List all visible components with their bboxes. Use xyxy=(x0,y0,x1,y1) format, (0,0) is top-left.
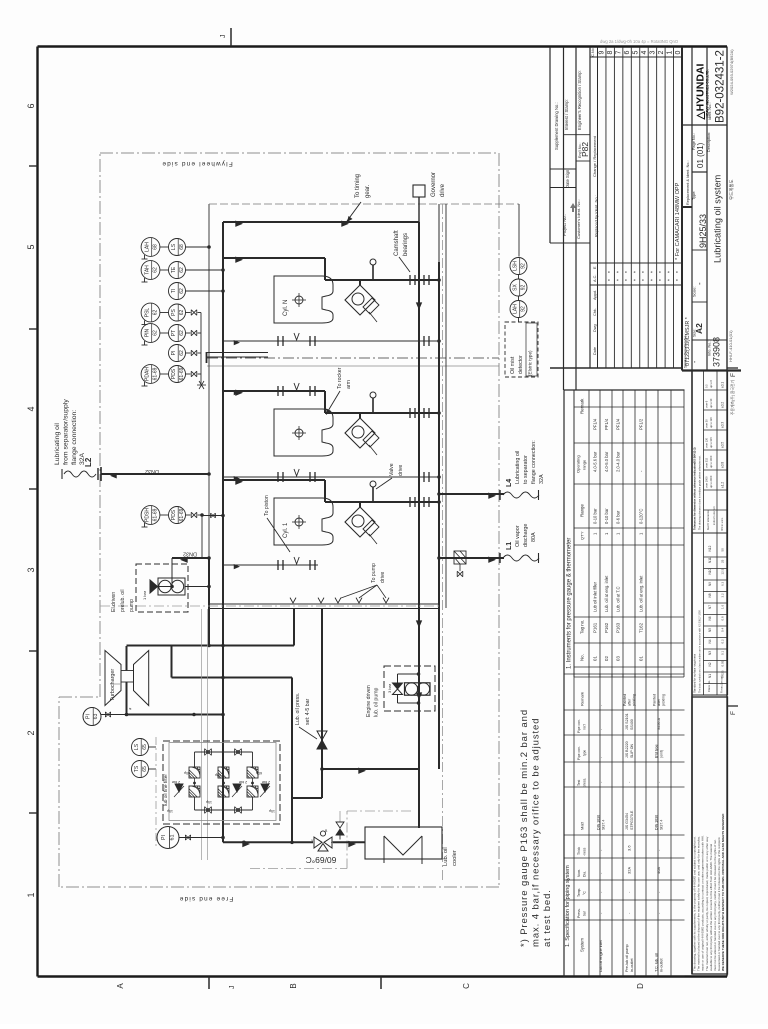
svg-text:15μ: 15μ xyxy=(269,809,275,813)
svg-text:02: 02 xyxy=(604,656,609,661)
svg-text:SX: SX xyxy=(512,284,518,291)
svg-text:N2: N2 xyxy=(708,662,712,666)
svg-text:PIN: PIN xyxy=(144,328,150,337)
svg-text:61-69: 61-69 xyxy=(179,367,185,380)
svg-text:The basic symbols and class nu: The basic symbols and class numbers are … xyxy=(699,609,702,693)
svg-text:5: 5 xyxy=(26,244,36,249)
svg-text:over 1000: over 1000 xyxy=(705,476,709,488)
svg-text:0-120°C: 0-120°C xyxy=(639,509,644,524)
svg-text:4.0-5.0 bar: 4.0-5.0 bar xyxy=(604,451,609,472)
svg-text:Engine driven: Engine driven xyxy=(366,685,372,717)
svg-text:32A: 32A xyxy=(539,474,545,484)
svg-text:PS: PS xyxy=(171,309,177,316)
svg-text:D: D xyxy=(636,983,645,989)
svg-text:L1: L1 xyxy=(506,542,513,550)
svg-text:No.: No. xyxy=(580,654,585,661)
svg-text:주용계측(주) 환국전기: 주용계측(주) 환국전기 xyxy=(730,380,735,415)
svg-text:HHI-F-410-01(01): HHI-F-410-01(01) xyxy=(728,330,733,362)
svg-text:Lubricating oil: Lubricating oil xyxy=(54,423,61,465)
svg-text:62: 62 xyxy=(179,267,185,273)
svg-text:03: 03 xyxy=(616,656,621,661)
svg-text:from separator/supply: from separator/supply xyxy=(63,399,70,465)
svg-text:drive: drive xyxy=(380,572,386,583)
svg-text:up to 315: up to 315 xyxy=(709,437,713,448)
svg-text:range: range xyxy=(582,459,587,470)
svg-text:Similar Drawing No.:: Similar Drawing No.: xyxy=(684,333,688,368)
svg-text:0.05: 0.05 xyxy=(721,660,725,666)
svg-text:B92-032431-2: B92-032431-2 xyxy=(715,50,727,123)
svg-text:60/69°C: 60/69°C xyxy=(306,855,337,865)
svg-text:at test bed.: at test bed. xyxy=(542,889,553,947)
svg-text:0.8: 0.8 xyxy=(721,616,725,621)
svg-text:over 120: over 120 xyxy=(705,437,709,448)
svg-text:in-outlet: in-outlet xyxy=(659,958,663,972)
svg-text:01 (01): 01 (01) xyxy=(696,142,705,168)
svg-text:Press.: Press. xyxy=(577,908,581,918)
svg-text:B'ld type: B'ld type xyxy=(655,744,659,758)
svg-text:A.C.: A.C. xyxy=(593,275,597,282)
svg-text:°C: °C xyxy=(583,891,587,895)
svg-text:indicat'n deviat'n: indicat'n deviat'n xyxy=(712,505,716,525)
svg-text:press.: press. xyxy=(583,778,587,787)
svg-text:±0.8: ±0.8 xyxy=(721,462,725,468)
svg-text:up to 30: up to 30 xyxy=(709,398,713,408)
svg-text:drive: drive xyxy=(398,465,404,476)
svg-text:2 bar: 2 bar xyxy=(261,780,270,784)
svg-text:±0.2: ±0.2 xyxy=(721,402,725,408)
svg-text:SS400: SS400 xyxy=(630,719,634,730)
svg-text:Appd.: Appd. xyxy=(593,290,597,300)
svg-text:N4: N4 xyxy=(708,639,712,643)
svg-text:Tolerances for dimension witho: Tolerances for dimension without toleran… xyxy=(693,447,697,530)
svg-text:N6: N6 xyxy=(708,616,712,620)
svg-text:arm: arm xyxy=(346,380,352,389)
svg-text:after: after xyxy=(628,698,632,706)
svg-text:15μ: 15μ xyxy=(167,809,173,813)
svg-text:up to 2000: up to 2000 xyxy=(709,475,713,488)
svg-text:01: 01 xyxy=(593,656,598,661)
svg-text:0.5: 0.5 xyxy=(705,384,709,388)
svg-text:2: 2 xyxy=(26,730,36,735)
svg-text:PSL: PSL xyxy=(144,308,150,318)
svg-text:N11: N11 xyxy=(708,557,712,563)
svg-text:2 bar: 2 bar xyxy=(171,780,180,784)
svg-text:0.025: 0.025 xyxy=(721,670,725,678)
svg-text:DN32: DN32 xyxy=(183,551,197,557)
svg-text:T.C. lub. oil: T.C. lub. oil xyxy=(655,953,659,972)
svg-text:PF1/4: PF1/4 xyxy=(593,418,598,430)
svg-text:Oil vapor: Oil vapor xyxy=(515,525,521,547)
svg-text:drive: drive xyxy=(440,183,446,197)
svg-text:over 315: over 315 xyxy=(705,457,709,468)
svg-text:Camshaft: Camshaft xyxy=(394,230,400,256)
svg-text:DIN 1630: DIN 1630 xyxy=(655,815,659,830)
svg-text:3.6: 3.6 xyxy=(627,845,632,851)
svg-text:T162: T162 xyxy=(639,622,644,633)
svg-text:lub. oil pump: lub. oil pump xyxy=(374,687,380,717)
svg-text:SLIP ON: SLIP ON xyxy=(630,743,634,758)
svg-text:Class No.: Class No. xyxy=(707,680,711,692)
svg-text:Date: Date xyxy=(593,347,597,355)
svg-text:To piston: To piston xyxy=(264,495,270,516)
svg-text:01: 01 xyxy=(639,656,644,661)
svg-text:Temp.: Temp. xyxy=(577,888,581,897)
svg-text:A: A xyxy=(116,983,125,989)
svg-text:(oint): (oint) xyxy=(659,750,663,758)
svg-text:lub oil fine filter: lub oil fine filter xyxy=(163,774,169,806)
svg-text:Interest / Stamp:: Interest / Stamp: xyxy=(564,99,569,130)
svg-text:TAH: TAH xyxy=(144,265,150,275)
svg-text:Dwg: Dwg xyxy=(593,324,597,332)
svg-text:N5: N5 xyxy=(708,628,712,632)
svg-text:F: F xyxy=(730,711,737,715)
svg-text:±0.3: ±0.3 xyxy=(721,422,725,428)
svg-text:Ident. No.:: Ident. No.: xyxy=(708,102,712,120)
svg-text:N3: N3 xyxy=(708,651,712,655)
svg-text:3: 3 xyxy=(649,50,656,54)
svg-text:68: 68 xyxy=(153,244,159,250)
svg-text:N7: N7 xyxy=(708,605,712,609)
svg-text:65: 65 xyxy=(142,744,148,750)
svg-text:pickling: pickling xyxy=(662,694,666,706)
svg-text:4: 4 xyxy=(641,50,648,54)
svg-text:detector: detector xyxy=(518,355,524,374)
svg-text:Change / Replacement: Change / Replacement xyxy=(592,135,597,177)
svg-text:Lubricating oil: Lubricating oil xyxy=(515,451,521,484)
svg-text:B: B xyxy=(289,983,298,988)
svg-text:1.6: 1.6 xyxy=(721,604,725,609)
svg-text:Oil mist: Oil mist xyxy=(510,356,516,374)
svg-text:TE: TE xyxy=(171,266,177,273)
svg-text:bearings: bearings xyxy=(403,233,409,256)
svg-text:Date Sign:: Date Sign: xyxy=(565,168,570,188)
svg-text:MM in units: MM in units xyxy=(720,517,724,531)
svg-text:Replacement & Ident. No.:: Replacement & Ident. No.: xyxy=(686,160,690,205)
svg-text:W2024-093-02974(B92A): W2024-093-02974(B92A) xyxy=(729,49,734,95)
svg-text:(Elstric type): (Elstric type) xyxy=(528,350,533,376)
svg-text:Q'TY: Q'TY xyxy=(581,531,585,540)
svg-text:2.0-4.0 bar: 2.0-4.0 bar xyxy=(616,451,621,472)
svg-text:80A: 80A xyxy=(531,532,537,542)
svg-text:C: C xyxy=(462,983,471,989)
svg-text:Lub. oil press.: Lub. oil press. xyxy=(295,693,301,725)
svg-text:60μ: 60μ xyxy=(215,773,221,777)
svg-text:TI: TI xyxy=(171,289,177,293)
svg-text:61: 61 xyxy=(170,835,176,841)
svg-text:S450-A: S450-A xyxy=(657,717,661,730)
svg-text:-ness: -ness xyxy=(583,847,587,856)
svg-text:0: 0 xyxy=(675,50,682,54)
svg-text:A2: A2 xyxy=(694,323,704,334)
svg-text:1: 1 xyxy=(26,892,36,897)
svg-text:PF1/2: PF1/2 xyxy=(639,418,644,430)
svg-text:15μ: 15μ xyxy=(206,800,212,804)
svg-text:max. 4 bar,if necessary orific: max. 4 bar,if necessary orifice to be ad… xyxy=(531,718,542,947)
svg-text:gear.: gear. xyxy=(365,184,371,198)
svg-text:Test: Test xyxy=(577,780,581,786)
svg-text:* For CAMACARI 148MW OPP: * For CAMACARI 148MW OPP xyxy=(675,182,681,260)
svg-text:68: 68 xyxy=(179,244,185,250)
svg-text:1 bar: 1 bar xyxy=(142,590,147,600)
svg-text:2: 2 xyxy=(658,50,665,54)
svg-text:El.driven: El.driven xyxy=(111,592,117,612)
svg-text:Valve: Valve xyxy=(389,463,395,476)
svg-text:Supplement Drawing No.:: Supplement Drawing No.: xyxy=(554,102,559,150)
svg-text:62: 62 xyxy=(179,310,185,316)
svg-text:flange connection:: flange connection: xyxy=(531,440,537,484)
svg-text:DN32: DN32 xyxy=(145,468,159,474)
svg-text:우드계통도: 우드계통도 xyxy=(728,179,735,200)
svg-text:To pump: To pump xyxy=(371,563,377,583)
svg-text:PDS: PDS xyxy=(171,368,177,379)
svg-text:Lub. oil: Lub. oil xyxy=(443,847,449,866)
svg-text:Lub. oil at eng. inlet: Lub. oil at eng. inlet xyxy=(639,575,644,612)
svg-text:Pipe con.: Pipe con. xyxy=(577,746,581,760)
svg-text:Replaced by Ident. No.:: Replaced by Ident. No.: xyxy=(594,195,599,237)
svg-text:St37.4: St37.4 xyxy=(659,820,663,830)
svg-text:7: 7 xyxy=(616,50,623,54)
svg-text:LS: LS xyxy=(171,243,177,250)
svg-text:JIS B2220: JIS B2220 xyxy=(625,741,629,758)
svg-text:50: 50 xyxy=(721,548,725,552)
svg-text:C.No: C.No xyxy=(591,48,595,56)
svg-text:over 6: over 6 xyxy=(705,400,709,408)
svg-text:J: J xyxy=(229,986,236,990)
svg-text:P163: P163 xyxy=(616,622,621,633)
svg-text:61-69: 61-69 xyxy=(179,508,185,521)
svg-text:92: 92 xyxy=(521,285,527,291)
svg-text:6: 6 xyxy=(26,103,36,108)
svg-text:3: 3 xyxy=(26,567,36,572)
svg-text:1: 1 xyxy=(666,50,673,54)
svg-text:40A: 40A xyxy=(656,867,661,874)
svg-text:Engineer's Recognition / Stamp: Engineer's Recognition / Stamp: xyxy=(577,70,582,130)
svg-text:JIS S2101: JIS S2101 xyxy=(625,713,629,730)
svg-text:Description:: Description: xyxy=(707,132,711,152)
svg-text:L2: L2 xyxy=(84,457,93,467)
svg-text:Painted: Painted xyxy=(623,694,627,706)
svg-text:Flywheel end side: Flywheel end side xyxy=(161,160,233,167)
svg-text:62: 62 xyxy=(179,350,185,356)
svg-text:Range: Range xyxy=(580,504,585,517)
svg-text:up to 120: up to 120 xyxy=(709,417,713,428)
svg-text:PF1/4: PF1/4 xyxy=(616,418,621,430)
svg-text:LSH: LSH xyxy=(512,261,518,271)
svg-text:61-69: 61-69 xyxy=(153,508,159,521)
svg-text:to separator: to separator xyxy=(523,455,529,484)
svg-text:L4: L4 xyxy=(506,479,513,487)
svg-text:1. Instruments for pressure ga: 1. Instruments for pressure gauge & ther… xyxy=(567,538,573,669)
svg-text:Thick: Thick xyxy=(577,847,581,855)
svg-text:62: 62 xyxy=(153,310,159,316)
svg-text:4: 4 xyxy=(26,406,36,411)
svg-text:Remark: Remark xyxy=(580,692,585,706)
svg-text:over 30: over 30 xyxy=(705,419,709,428)
svg-text:0.4: 0.4 xyxy=(721,627,725,632)
svg-text:dwg 2a 1/dwg-0h 10a 4p = Rotat: dwg 2a 1/dwg-0h 10a 4p = RotatING QnO xyxy=(600,39,679,44)
svg-text:±0.5: ±0.5 xyxy=(721,442,725,448)
svg-text:63: 63 xyxy=(93,714,99,720)
svg-text:flange connection:: flange connection: xyxy=(71,410,78,465)
svg-text:To timing: To timing xyxy=(355,174,361,198)
svg-text:Lub. oil at T.C: Lub. oil at T.C xyxy=(616,586,621,612)
svg-text:The drawing tolerance class is: The drawing tolerance class is medium gr… xyxy=(699,455,702,530)
svg-text:Pipe con.: Pipe con. xyxy=(577,719,581,733)
svg-text:0-6 bar: 0-6 bar xyxy=(616,510,621,524)
svg-text:N12: N12 xyxy=(708,545,712,551)
svg-text:32A: 32A xyxy=(627,867,632,874)
svg-text:0.1: 0.1 xyxy=(721,650,725,655)
svg-text:Lub. oil at eng. inlet: Lub. oil at eng. inlet xyxy=(604,575,609,612)
svg-text:N10: N10 xyxy=(708,568,712,574)
svg-text:3 bar: 3 bar xyxy=(387,683,392,693)
svg-text:LAH: LAH xyxy=(512,304,518,314)
svg-text:prelub. oil: prelub. oil xyxy=(120,590,126,613)
svg-text:To rocker: To rocker xyxy=(337,367,343,389)
svg-text:8: 8 xyxy=(607,50,614,54)
svg-text:60μ: 60μ xyxy=(256,771,262,775)
svg-text:1. Specification for piping sy: 1. Specification for piping system xyxy=(565,865,571,947)
svg-text:-: - xyxy=(695,282,704,285)
svg-text:F: F xyxy=(730,373,737,377)
svg-text:P161: P161 xyxy=(593,622,598,633)
svg-text:0-10 bar: 0-10 bar xyxy=(604,508,609,524)
svg-text:*) Pressure gauge P163 shall b: *) Pressure gauge P163 shall be min.2 ba… xyxy=(519,709,530,947)
svg-text:Operating: Operating xyxy=(576,455,581,473)
svg-text:cooler: cooler xyxy=(452,850,458,866)
svg-text:Standard for surface roughness: Standard for surface roughness xyxy=(693,653,697,693)
svg-text:JIS G3454: JIS G3454 xyxy=(625,813,629,830)
svg-text:no:'l: no:'l xyxy=(583,724,587,730)
svg-text:type: type xyxy=(583,750,587,756)
svg-text:5: 5 xyxy=(633,50,640,54)
svg-text:Lub oil inlet filler: Lub oil inlet filler xyxy=(593,581,598,612)
svg-text:Type:: Type: xyxy=(692,191,696,200)
svg-text:Mat'l: Mat'l xyxy=(580,822,585,830)
svg-text:3.2: 3.2 xyxy=(721,593,725,598)
svg-text:62: 62 xyxy=(153,330,159,336)
svg-text:WE RESERVE THESE OUR RIGHTS WI: WE RESERVE THESE OUR RIGHTS WITH RESPECT… xyxy=(721,813,725,971)
svg-text:Scale:: Scale: xyxy=(693,286,697,297)
svg-text:Nom.: Nom. xyxy=(577,869,581,877)
svg-text:Free end side: Free end side xyxy=(179,895,234,902)
svg-text:Gen'l tolerance: Gen'l tolerance xyxy=(706,510,710,530)
svg-text:up to 6: up to 6 xyxy=(709,380,713,388)
svg-text:±0.1: ±0.1 xyxy=(721,382,725,388)
svg-text:Painted: Painted xyxy=(652,694,656,706)
svg-text:6.3: 6.3 xyxy=(721,581,725,586)
svg-text:Dia.: Dia. xyxy=(583,871,587,877)
svg-text:Project No.:: Project No.: xyxy=(562,214,567,236)
svg-text:60μ: 60μ xyxy=(184,771,190,775)
svg-text:PDAH: PDAH xyxy=(144,367,150,381)
svg-text:STPG370-E: STPG370-E xyxy=(630,810,634,830)
svg-text:9H25/33: 9H25/33 xyxy=(698,214,708,248)
svg-text:N1: N1 xyxy=(708,674,712,678)
svg-text:pump: pump xyxy=(129,599,135,612)
svg-text:LAH: LAH xyxy=(144,242,150,252)
svg-text:25: 25 xyxy=(721,559,725,563)
svg-text:92: 92 xyxy=(521,263,527,269)
svg-text:Remark: Remark xyxy=(580,398,585,414)
svg-text:62: 62 xyxy=(179,288,185,294)
svg-text:Tag no.: Tag no. xyxy=(580,620,585,634)
svg-text:Pre-lub oil pump: Pre-lub oil pump xyxy=(625,944,629,972)
svg-text:92: 92 xyxy=(521,306,527,312)
svg-text:PT: PT xyxy=(171,330,177,336)
svg-text:System: System xyxy=(580,938,585,952)
svg-text:PI: PI xyxy=(86,714,92,719)
svg-text:Lubricating oil system: Lubricating oil system xyxy=(713,174,723,263)
svg-text:PDS: PDS xyxy=(171,509,177,520)
svg-text:0-10 bar: 0-10 bar xyxy=(593,508,598,524)
svg-text:Chk.: Chk. xyxy=(593,308,597,316)
svg-text:TS: TS xyxy=(134,765,140,772)
svg-text:up to 1000: up to 1000 xyxy=(709,455,713,468)
svg-text:pickling: pickling xyxy=(632,694,636,706)
svg-text:P162: P162 xyxy=(604,622,609,633)
svg-text:Customer's Ident. No.:: Customer's Ident. No.: xyxy=(576,199,581,239)
svg-text:12.5: 12.5 xyxy=(721,568,725,574)
svg-text:set: 4-5 bar: set: 4-5 bar xyxy=(305,698,311,725)
svg-text:4.0-5.6 bar: 4.0-5.6 bar xyxy=(593,451,598,472)
svg-text:Cyl. 1: Cyl. 1 xyxy=(283,522,289,538)
svg-text:J: J xyxy=(220,35,227,39)
svg-text:N8: N8 xyxy=(708,593,712,597)
svg-text:after: after xyxy=(657,698,661,706)
svg-text:PF1/4: PF1/4 xyxy=(604,418,609,430)
svg-text:P82: P82 xyxy=(580,142,590,157)
svg-text:Lub.oil engine inlet: Lub.oil engine inlet xyxy=(599,939,603,972)
svg-text:61-69: 61-69 xyxy=(153,367,159,380)
svg-text:2 bar: 2 bar xyxy=(238,780,247,784)
svg-text:9: 9 xyxy=(599,50,606,54)
svg-text:65: 65 xyxy=(142,766,148,772)
svg-text:62: 62 xyxy=(179,330,185,336)
svg-text:St37.4: St37.4 xyxy=(601,820,605,830)
svg-text:Governor: Governor xyxy=(431,172,437,197)
svg-text:0.2: 0.2 xyxy=(721,639,725,644)
svg-text:bar: bar xyxy=(583,910,587,916)
svg-text:PDSH: PDSH xyxy=(144,508,150,522)
svg-text:±1.2: ±1.2 xyxy=(721,482,725,488)
svg-text:Cyl. N: Cyl. N xyxy=(283,300,289,316)
svg-text:6: 6 xyxy=(624,50,631,54)
svg-text:LS: LS xyxy=(134,743,140,750)
svg-text:PI: PI xyxy=(171,351,177,356)
svg-text:373908: 373908 xyxy=(712,337,722,367)
svg-text:62: 62 xyxy=(153,267,159,273)
svg-text:N9: N9 xyxy=(708,582,712,586)
svg-text:Turbocharger: Turbocharger xyxy=(110,669,116,701)
svg-text:DIN 1630: DIN 1630 xyxy=(597,815,601,830)
svg-text:in-outlet: in-outlet xyxy=(630,958,634,972)
svg-text:PI: PI xyxy=(161,835,167,840)
svg-text:discharge: discharge xyxy=(523,524,529,547)
